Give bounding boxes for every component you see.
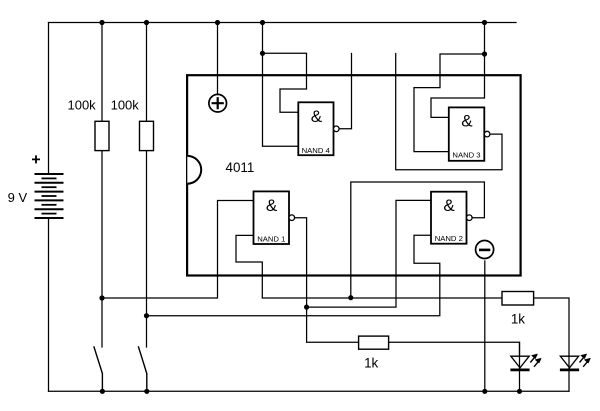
svg-text:4011: 4011 <box>226 160 255 175</box>
svg-text:100k: 100k <box>111 97 140 112</box>
svg-text:NAND 4: NAND 4 <box>302 146 331 155</box>
svg-text:NAND 2: NAND 2 <box>435 234 463 243</box>
svg-text:&: & <box>461 111 473 130</box>
svg-text:100k: 100k <box>67 97 96 112</box>
svg-text:&: & <box>443 196 455 215</box>
svg-text:&: & <box>266 196 278 215</box>
svg-text:&: & <box>311 107 323 126</box>
svg-text:1k: 1k <box>511 312 525 327</box>
svg-text:NAND 3: NAND 3 <box>452 151 480 160</box>
svg-text:1k: 1k <box>364 356 378 371</box>
svg-text:NAND 1: NAND 1 <box>257 234 285 243</box>
svg-text:9 V: 9 V <box>8 190 28 205</box>
